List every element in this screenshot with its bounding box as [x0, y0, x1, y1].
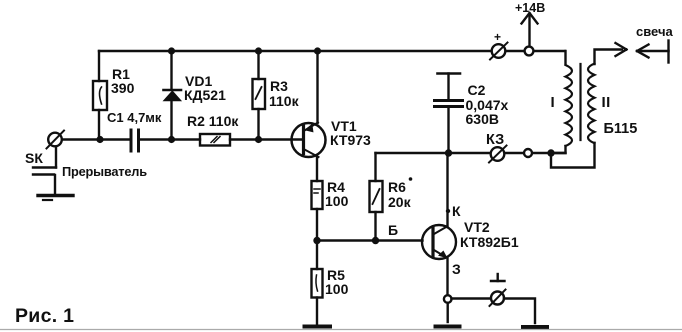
label C2 0,047x 630В: [466, 82, 509, 127]
wire secondary top lead: [595, 50, 623, 65]
node junction R6-base: [372, 237, 379, 244]
svg-text:110к: 110к: [269, 93, 300, 109]
page edge line: [0, 329, 682, 331]
ground under R5: [305, 325, 331, 329]
label winding I: [551, 94, 555, 111]
svg-text:К: К: [452, 203, 461, 219]
label C1 4,7мк: [107, 110, 162, 125]
diode VD1: [164, 90, 182, 138]
svg-text:SК: SК: [25, 150, 43, 166]
svg-text:С1 4,7мк: С1 4,7мк: [107, 110, 162, 125]
node junction R4-R5: [313, 237, 320, 244]
svg-text:R6: R6: [388, 179, 406, 195]
label свеча: [636, 24, 674, 39]
wire terminal to right ground: [504, 299, 535, 324]
wire VD1 top lead: [170, 51, 172, 89]
node junction VD1-rail: [168, 136, 175, 143]
transistor VT2: [422, 153, 456, 296]
svg-text:VT2: VT2: [464, 219, 490, 235]
wire node line (VT1/R4 to base): [317, 239, 423, 241]
label SK: [25, 150, 43, 166]
label VT2 КТ892Б1: [460, 219, 519, 250]
node junction C2-КЗ: [445, 149, 452, 156]
resistor R4: [312, 181, 323, 240]
wire emitter node to terminal: [452, 297, 492, 299]
label R4 100: [325, 179, 349, 209]
label Б: [388, 222, 398, 238]
svg-text:+14В: +14В: [515, 1, 545, 15]
label Б115: [604, 121, 638, 137]
terminal КЗ (open circle): [524, 149, 532, 157]
svg-text:100: 100: [325, 281, 349, 297]
wire КЗ rail: [376, 152, 492, 154]
svg-text:20к: 20к: [388, 194, 412, 210]
transistor VT1: [292, 123, 326, 182]
svg-text:З: З: [452, 261, 461, 277]
transformer T1 secondary winding II: [588, 64, 595, 144]
label +14В: [515, 1, 545, 15]
chassis mark above terminal: [491, 274, 505, 281]
resistor R1: [93, 81, 107, 138]
label З: [452, 261, 461, 277]
svg-text:свеча: свеча: [636, 24, 674, 39]
label КЗ: [486, 132, 504, 148]
svg-text:С2: С2: [468, 82, 486, 98]
wire emitter node down: [447, 303, 449, 322]
transformer core: [579, 64, 581, 140]
svg-text:Б115: Б115: [604, 121, 638, 137]
terminal +14В (open circle): [525, 47, 534, 56]
wire bus corner to transformer primary: [564, 51, 566, 64]
junction dots top bus: [168, 47, 175, 54]
label R3 110k: [269, 78, 300, 109]
resistor R3: [253, 79, 266, 138]
label VT1 КТ973: [330, 118, 371, 148]
wire mid rail: [62, 138, 130, 140]
ground under SK: [38, 196, 73, 201]
svg-text:КЗ: КЗ: [486, 132, 504, 148]
svg-text:100: 100: [325, 193, 349, 209]
svg-text:R3: R3: [270, 78, 288, 94]
label R1 390: [111, 66, 135, 96]
spark gap right arrow: [616, 43, 627, 56]
svg-text:+: +: [494, 30, 501, 44]
svg-text:КТ892Б1: КТ892Б1: [460, 234, 519, 250]
label Прерыватель: [62, 164, 147, 179]
wire top bus: [99, 50, 565, 52]
svg-text:390: 390: [111, 80, 135, 96]
svg-text:630В: 630В: [466, 111, 499, 127]
svg-text:Прерыватель: Прерыватель: [62, 164, 147, 179]
wire VT1 collector lead: [316, 51, 318, 123]
svg-text:Б: Б: [388, 222, 398, 238]
resistor R5: [312, 241, 323, 325]
switch SK contacts: [33, 147, 56, 194]
spark gap left arrow: [637, 41, 669, 63]
power +14В arrow: [522, 13, 538, 46]
node junction R3-rail: [255, 136, 262, 143]
wire R3 top lead: [257, 51, 259, 79]
svg-text:R2 110к: R2 110к: [187, 113, 239, 129]
transformer T1 primary winding I: [566, 65, 573, 146]
node collector tick: [446, 209, 450, 213]
svg-text:II: II: [602, 94, 611, 111]
resistor R2: [200, 134, 230, 146]
terminal + (slashed circle on top bus): [490, 43, 508, 60]
wire primary bottom lead: [551, 146, 566, 153]
svg-text:I: I: [551, 94, 555, 111]
terminal SK (slashed circle): [47, 131, 65, 149]
svg-text:КД521: КД521: [184, 87, 226, 103]
svg-text:КТ973: КТ973: [330, 132, 371, 148]
label К: [452, 203, 461, 219]
wire R1 top lead: [98, 51, 100, 81]
label winding II: [602, 94, 611, 111]
label R6 20k: [388, 177, 412, 210]
ground under emitter: [436, 325, 460, 329]
terminal emitter (slashed circle): [490, 290, 506, 307]
resistor R6: [370, 153, 383, 240]
label VD1 КД521: [184, 73, 226, 103]
terminal КЗ (slashed circle): [489, 146, 507, 163]
node junction primary-КЗ: [547, 149, 554, 156]
capacitor C2: [435, 74, 463, 154]
capacitor C1: [131, 130, 139, 151]
label R5 100: [325, 267, 349, 297]
ground right: [523, 325, 547, 329]
label +: [494, 30, 501, 44]
label R2 110k: [187, 113, 239, 129]
wire secondary bottom loop: [551, 143, 595, 168]
node junction R1-rail: [96, 136, 103, 143]
svg-text:Рис. 1: Рис. 1: [15, 305, 74, 327]
node emitter (open circle): [444, 295, 452, 303]
